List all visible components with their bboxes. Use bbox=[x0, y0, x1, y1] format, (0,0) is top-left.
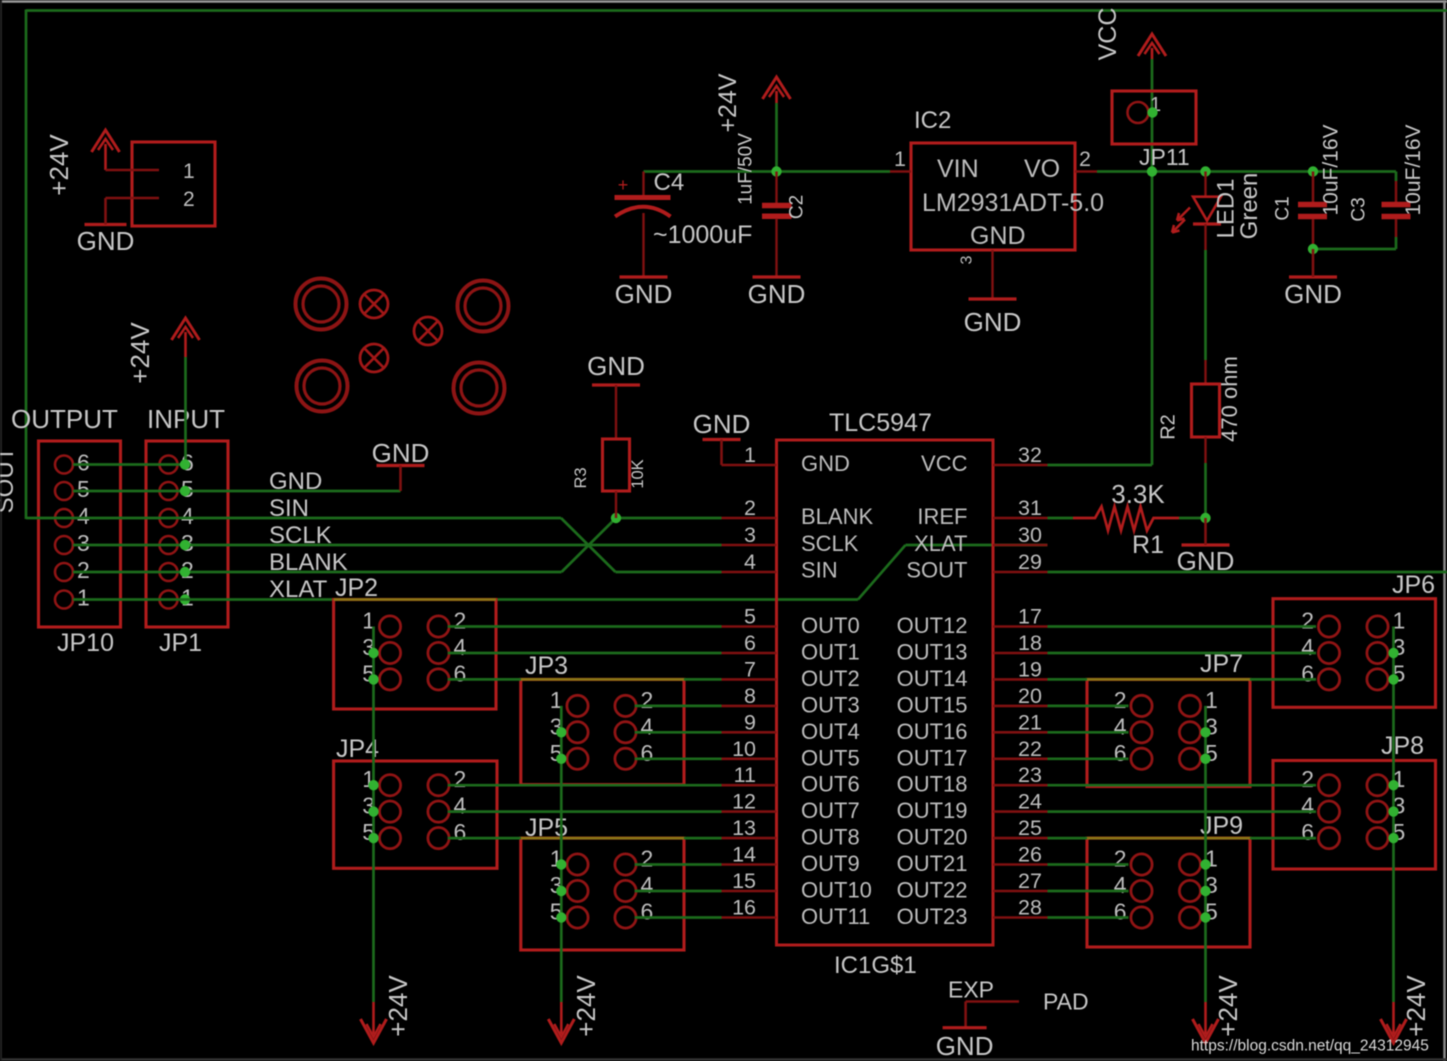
junction JP79 row4 bbox=[1200, 727, 1210, 737]
pad EXP/PAD bbox=[948, 977, 1089, 1028]
ground EXP bbox=[936, 1028, 994, 1061]
svg-text:JP11: JP11 bbox=[1139, 144, 1190, 170]
junction JP35 row10 bbox=[556, 886, 566, 896]
svg-text:23: 23 bbox=[1018, 763, 1042, 787]
svg-text:JP6: JP6 bbox=[1392, 571, 1435, 599]
svg-text:6: 6 bbox=[1301, 660, 1314, 686]
wire +24V JP2/JP4 bbox=[372, 627, 375, 1003]
junction C1 top bbox=[1308, 166, 1318, 176]
connector JP8 bbox=[1273, 732, 1436, 869]
junction JP24 row7 bbox=[368, 806, 378, 816]
svg-text:4: 4 bbox=[744, 550, 756, 574]
svg-text:OUT4: OUT4 bbox=[801, 719, 860, 744]
junction C1/C3 bottom bbox=[1308, 244, 1318, 254]
wire SIN/SOUT row bbox=[26, 518, 722, 572]
wire row pin6 bbox=[73, 463, 185, 466]
wire OUT3 bbox=[635, 705, 722, 708]
junction JP68 row2 bbox=[1388, 674, 1398, 684]
junction +24V/C2 bbox=[771, 166, 781, 176]
wire OUT6 bbox=[448, 784, 722, 787]
svg-text:OUT2: OUT2 bbox=[801, 666, 860, 691]
svg-text:JP3: JP3 bbox=[525, 652, 568, 680]
svg-text:OUT23: OUT23 bbox=[897, 904, 968, 929]
svg-text:8: 8 bbox=[744, 684, 756, 708]
junction JP79 row9 bbox=[1200, 859, 1210, 869]
svg-text:XLAT: XLAT bbox=[914, 531, 967, 556]
svg-text:GND: GND bbox=[964, 307, 1022, 337]
svg-text:SIN: SIN bbox=[269, 495, 309, 522]
svg-text:4: 4 bbox=[77, 503, 90, 529]
svg-text:9: 9 bbox=[744, 710, 756, 734]
svg-text:1: 1 bbox=[894, 147, 906, 171]
wire OUT20 bbox=[1048, 837, 1317, 840]
svg-text:470 ohm: 470 ohm bbox=[1217, 356, 1242, 442]
wire OUT17 bbox=[1048, 757, 1129, 760]
LED LED1 Green bbox=[1172, 172, 1263, 240]
junction JP79 row5 bbox=[1200, 754, 1210, 764]
svg-text:OUT16: OUT16 bbox=[897, 719, 968, 744]
svg-text:6: 6 bbox=[1301, 819, 1314, 845]
wire OUT16 bbox=[1048, 731, 1129, 734]
svg-text:18: 18 bbox=[1018, 631, 1042, 655]
svg-text:+24V: +24V bbox=[571, 975, 601, 1037]
svg-text:SIN: SIN bbox=[801, 558, 838, 583]
svg-text:4: 4 bbox=[641, 872, 654, 898]
svg-text:6: 6 bbox=[454, 819, 467, 845]
svg-text:4: 4 bbox=[1301, 793, 1314, 819]
svg-text:3.3K: 3.3K bbox=[1111, 479, 1165, 509]
connector X1 (2-pin) bbox=[106, 142, 216, 226]
supply +24V at C2 bbox=[714, 73, 791, 171]
ground C2 bbox=[748, 277, 806, 309]
svg-text:+24V: +24V bbox=[1213, 975, 1243, 1037]
wire OUT12 bbox=[1048, 625, 1317, 628]
svg-text:C2: C2 bbox=[787, 195, 808, 219]
svg-text:2: 2 bbox=[1114, 687, 1127, 713]
wire VCC vertical bbox=[1151, 59, 1154, 465]
svg-text:VIN: VIN bbox=[937, 155, 979, 183]
svg-text:24: 24 bbox=[1018, 790, 1042, 814]
ground C4 bbox=[615, 277, 673, 309]
junction JP35 row5 bbox=[556, 754, 566, 764]
svg-text:6: 6 bbox=[454, 660, 467, 686]
capacitor C1 bbox=[1273, 124, 1343, 249]
svg-text:1: 1 bbox=[77, 585, 90, 611]
svg-text:OUTPUT: OUTPUT bbox=[11, 404, 118, 434]
capacitor C2 bbox=[736, 133, 808, 277]
svg-text:C3: C3 bbox=[1349, 197, 1370, 221]
svg-text:4: 4 bbox=[454, 793, 467, 819]
svg-text:OUT6: OUT6 bbox=[801, 772, 860, 797]
wire BLANK bbox=[73, 518, 722, 572]
junction JP35 row4 bbox=[556, 727, 566, 737]
connector JP2 bbox=[334, 574, 496, 709]
svg-text:5: 5 bbox=[77, 476, 90, 502]
svg-text:GND: GND bbox=[1284, 279, 1342, 309]
svg-text:30: 30 bbox=[1018, 523, 1042, 547]
svg-text:OUT12: OUT12 bbox=[897, 613, 968, 638]
junction JP1 pin6 bbox=[180, 459, 190, 469]
svg-text:4: 4 bbox=[454, 634, 467, 660]
svg-text:32: 32 bbox=[1018, 443, 1042, 467]
svg-text:10K: 10K bbox=[629, 459, 647, 488]
ground R1 bbox=[1177, 518, 1235, 576]
supply +24V arrow B bbox=[548, 975, 601, 1043]
wire VCC pin32 bbox=[1048, 464, 1153, 467]
svg-text:LM2931ADT-5.0: LM2931ADT-5.0 bbox=[922, 189, 1104, 217]
wire LED1 to R2 bbox=[1204, 224, 1206, 360]
ground C1/C3 bbox=[1284, 249, 1342, 309]
resistor R3 10K bbox=[572, 385, 647, 518]
ground TLC5947 pin1 bbox=[693, 409, 751, 465]
svg-text:OUT19: OUT19 bbox=[897, 798, 968, 823]
junction JP79 row11 bbox=[1200, 912, 1210, 922]
connector JP1 INPUT bbox=[146, 404, 228, 657]
svg-text:13: 13 bbox=[732, 816, 756, 840]
wire VCC net VO bbox=[1097, 170, 1396, 173]
wire SOUT loop left bbox=[25, 10, 28, 520]
junction JP1 pin3 bbox=[180, 540, 190, 550]
supply VCC bbox=[1094, 8, 1166, 61]
svg-text:+: + bbox=[618, 175, 629, 195]
svg-text:15: 15 bbox=[732, 869, 756, 893]
capacitor C4 bbox=[615, 169, 753, 277]
svg-text:10uF/16V: 10uF/16V bbox=[1402, 124, 1425, 215]
svg-text:14: 14 bbox=[732, 843, 756, 867]
svg-text:1uF/50V: 1uF/50V bbox=[736, 133, 757, 205]
svg-text:4: 4 bbox=[181, 503, 194, 529]
mounting hole H2 bbox=[458, 281, 509, 332]
svg-text:6: 6 bbox=[744, 631, 756, 655]
junction LED branch bbox=[1200, 166, 1210, 176]
svg-text:GND: GND bbox=[372, 438, 430, 468]
svg-text:10: 10 bbox=[732, 737, 756, 761]
net label SCLK bbox=[269, 522, 332, 549]
supply +24V above JP1 bbox=[125, 318, 200, 465]
IC U1 TLC5947 bbox=[722, 409, 1048, 979]
svg-text:2: 2 bbox=[1114, 846, 1127, 872]
svg-text:+24V: +24V bbox=[44, 134, 74, 196]
svg-text:GND: GND bbox=[77, 226, 135, 256]
wire SOUT loop top bbox=[26, 9, 1447, 12]
svg-text:OUT22: OUT22 bbox=[897, 878, 968, 903]
svg-text:2: 2 bbox=[1079, 147, 1091, 171]
svg-text:GND: GND bbox=[587, 351, 645, 381]
svg-text:6: 6 bbox=[641, 899, 654, 925]
svg-text:2: 2 bbox=[1301, 608, 1314, 634]
junction JP24 row6 bbox=[368, 780, 378, 790]
svg-text:SOUT: SOUT bbox=[906, 558, 967, 583]
fiducial hole F2 bbox=[414, 317, 442, 345]
junction R1/R2 bbox=[1200, 513, 1210, 523]
svg-text:GND: GND bbox=[936, 1031, 994, 1061]
wire OUT14 bbox=[1048, 678, 1317, 681]
svg-text:OUT10: OUT10 bbox=[801, 878, 872, 903]
wire OUT13 bbox=[1048, 652, 1317, 655]
svg-text:Green: Green bbox=[1236, 173, 1263, 240]
wire OUT22 bbox=[1048, 890, 1129, 893]
supply +24V arrow A bbox=[361, 975, 414, 1043]
svg-text:2: 2 bbox=[183, 188, 195, 211]
ground IC2 bbox=[964, 299, 1022, 337]
svg-text:4: 4 bbox=[641, 713, 654, 739]
svg-text:OUT20: OUT20 bbox=[897, 825, 968, 850]
svg-text:1: 1 bbox=[744, 443, 756, 467]
ground R3 bbox=[587, 351, 645, 385]
svg-text:R1: R1 bbox=[1132, 531, 1164, 559]
wire XLAT bbox=[73, 545, 1048, 600]
svg-text:16: 16 bbox=[732, 896, 756, 920]
junction JP79 row10 bbox=[1200, 886, 1210, 896]
connector JP10 OUTPUT bbox=[11, 404, 121, 657]
junction JP1 pin5 bbox=[180, 486, 190, 496]
junction JP68 row7 bbox=[1388, 806, 1398, 816]
svg-text:25: 25 bbox=[1018, 816, 1042, 840]
wire OUT10 bbox=[635, 890, 722, 893]
connector JP3 bbox=[521, 652, 684, 785]
junction JP24 row1 bbox=[368, 648, 378, 658]
mounting hole H1 bbox=[296, 279, 347, 330]
svg-text:OUT17: OUT17 bbox=[897, 745, 968, 770]
svg-text:20: 20 bbox=[1018, 684, 1042, 708]
ground X1 bbox=[77, 198, 135, 256]
svg-text:VCC: VCC bbox=[1094, 8, 1122, 61]
svg-text:TLC5947: TLC5947 bbox=[829, 409, 932, 437]
svg-text:C4: C4 bbox=[654, 169, 685, 196]
svg-text:OUT3: OUT3 bbox=[801, 692, 860, 717]
connector JP4 bbox=[334, 735, 497, 868]
svg-text:VO: VO bbox=[1024, 155, 1060, 183]
wire OUT11 bbox=[635, 916, 722, 919]
supply +24V arrow C bbox=[1193, 975, 1244, 1043]
wire OUT5 bbox=[635, 757, 722, 760]
svg-text:JP2: JP2 bbox=[335, 574, 378, 602]
svg-text:26: 26 bbox=[1018, 843, 1042, 867]
svg-text:2: 2 bbox=[454, 608, 467, 634]
junction JP1 pin1 bbox=[180, 594, 190, 604]
svg-text:+24V: +24V bbox=[714, 73, 742, 132]
connector JP11 bbox=[1112, 91, 1196, 170]
wire C3 top bbox=[1395, 172, 1398, 203]
junction JP24 row2 bbox=[368, 674, 378, 684]
svg-text:IC1G$1: IC1G$1 bbox=[834, 952, 917, 979]
wire OUT7 bbox=[448, 810, 722, 813]
svg-text:17: 17 bbox=[1018, 605, 1042, 629]
svg-text:GND: GND bbox=[801, 451, 850, 476]
wire IREF bbox=[1048, 517, 1074, 520]
svg-text:OUT18: OUT18 bbox=[897, 772, 968, 797]
mounting hole H4 bbox=[454, 363, 505, 414]
svg-text:2: 2 bbox=[454, 766, 467, 792]
svg-text:2: 2 bbox=[744, 496, 756, 520]
wire OUT21 bbox=[1048, 863, 1129, 866]
net label BLANK bbox=[269, 549, 348, 576]
svg-text:+24V: +24V bbox=[125, 322, 155, 384]
svg-text:JP8: JP8 bbox=[1381, 732, 1424, 760]
watermark bbox=[1191, 1038, 1429, 1055]
svg-text:VCC: VCC bbox=[921, 451, 968, 476]
wire R2 to R1 junction bbox=[1204, 463, 1207, 518]
junction VCC/VO bbox=[1147, 166, 1157, 176]
svg-text:28: 28 bbox=[1018, 896, 1042, 920]
svg-text:2: 2 bbox=[641, 846, 654, 872]
svg-text:OUT15: OUT15 bbox=[897, 692, 968, 717]
wire R1 to junction bbox=[1179, 517, 1206, 520]
svg-text:IC2: IC2 bbox=[914, 107, 951, 134]
svg-text:3: 3 bbox=[744, 523, 756, 547]
svg-text:12: 12 bbox=[732, 790, 756, 814]
svg-text:IREF: IREF bbox=[917, 504, 967, 529]
wire +24V C4 to IC2 bbox=[644, 170, 891, 173]
svg-text:https://blog.csdn.net/qq_24312: https://blog.csdn.net/qq_24312945 bbox=[1191, 1038, 1429, 1055]
junction JP35 row9 bbox=[556, 859, 566, 869]
svg-text:1: 1 bbox=[1205, 687, 1218, 713]
supply +24V top-left bbox=[44, 130, 120, 196]
svg-text:OUT9: OUT9 bbox=[801, 851, 860, 876]
resistor R2 470 ohm bbox=[1158, 356, 1243, 463]
capacitor C3 bbox=[1349, 124, 1426, 237]
svg-text:~1000uF: ~1000uF bbox=[653, 221, 752, 249]
junction R3/BLANK bbox=[611, 513, 621, 523]
svg-text:GND: GND bbox=[970, 222, 1026, 250]
wire OUT4 bbox=[635, 731, 722, 734]
svg-text:OUT21: OUT21 bbox=[897, 851, 968, 876]
svg-text:21: 21 bbox=[1018, 710, 1042, 734]
svg-text:2: 2 bbox=[641, 687, 654, 713]
svg-text:SOUT: SOUT bbox=[0, 446, 19, 513]
resistor R1 3.3K bbox=[1073, 479, 1179, 559]
junction JP68 row6 bbox=[1388, 780, 1398, 790]
wire +24V JP6/JP8 bbox=[1392, 627, 1395, 1003]
junction JP35 row11 bbox=[556, 912, 566, 922]
svg-text:OUT1: OUT1 bbox=[801, 640, 860, 665]
svg-text:19: 19 bbox=[1018, 657, 1042, 681]
svg-text:2: 2 bbox=[1301, 766, 1314, 792]
svg-text:22: 22 bbox=[1018, 737, 1042, 761]
svg-text:6: 6 bbox=[1114, 740, 1127, 766]
svg-text:BLANK: BLANK bbox=[269, 549, 348, 576]
net label SIN bbox=[269, 495, 309, 522]
svg-text:6: 6 bbox=[641, 740, 654, 766]
svg-text:C1: C1 bbox=[1273, 196, 1294, 220]
svg-text:R3: R3 bbox=[572, 467, 590, 488]
svg-text:GND: GND bbox=[269, 468, 322, 495]
wire OUT1 bbox=[448, 652, 722, 655]
svg-text:GND: GND bbox=[693, 409, 751, 439]
wire SCLK bbox=[73, 544, 722, 547]
ground net GND (JP1) bbox=[372, 438, 430, 491]
svg-text:3: 3 bbox=[77, 530, 90, 556]
svg-text:OUT11: OUT11 bbox=[801, 904, 870, 929]
wire +24V JP3/JP5 bbox=[560, 706, 563, 1002]
svg-text:GND: GND bbox=[748, 279, 806, 309]
svg-text:PAD: PAD bbox=[1043, 989, 1089, 1015]
svg-text:BLANK: BLANK bbox=[801, 504, 873, 529]
svg-text:OUT14: OUT14 bbox=[897, 666, 968, 691]
svg-text:7: 7 bbox=[744, 657, 756, 681]
svg-text:2: 2 bbox=[77, 557, 90, 583]
junction JP24 row8 bbox=[368, 833, 378, 843]
junction JP68 row1 bbox=[1388, 648, 1398, 658]
svg-text:4: 4 bbox=[1301, 634, 1314, 660]
junction JP1 pin2 bbox=[180, 567, 190, 577]
svg-text:5: 5 bbox=[744, 605, 756, 629]
svg-text:1: 1 bbox=[183, 160, 195, 183]
net label SOUT bbox=[0, 446, 19, 513]
svg-text:OUT13: OUT13 bbox=[897, 640, 968, 665]
svg-text:GND: GND bbox=[615, 279, 673, 309]
junction JP68 row8 bbox=[1388, 833, 1398, 843]
svg-text:29: 29 bbox=[1018, 550, 1042, 574]
wire SOUT pin29 bbox=[1048, 571, 1447, 574]
connector JP7 bbox=[1087, 650, 1250, 787]
svg-text:R2: R2 bbox=[1158, 414, 1180, 440]
wire OUT2 bbox=[448, 678, 722, 681]
svg-text:JP10: JP10 bbox=[57, 629, 114, 657]
fiducial hole F3 bbox=[360, 344, 388, 372]
mounting hole H3 bbox=[297, 361, 348, 412]
wire C3 bottom to C1 bbox=[1313, 237, 1396, 249]
svg-text:OUT0: OUT0 bbox=[801, 613, 860, 638]
net label GND bbox=[269, 468, 322, 495]
wire +24V JP7/JP9 bbox=[1204, 706, 1207, 1002]
svg-text:11: 11 bbox=[734, 763, 756, 787]
wire OUT18 bbox=[1048, 784, 1317, 787]
fiducial hole F1 bbox=[360, 290, 388, 318]
wire OUT9 bbox=[635, 863, 722, 866]
svg-text:+24V: +24V bbox=[1401, 975, 1431, 1037]
svg-text:4: 4 bbox=[1114, 872, 1127, 898]
svg-text:OUT5: OUT5 bbox=[801, 745, 860, 770]
svg-text:6: 6 bbox=[77, 450, 90, 476]
svg-text:SCLK: SCLK bbox=[269, 522, 332, 549]
op-amp/regulator IC2 LM2931ADT-5.0 bbox=[890, 107, 1104, 299]
svg-text:OUT8: OUT8 bbox=[801, 825, 860, 850]
supply +24V arrow D bbox=[1381, 975, 1432, 1043]
svg-text:SCLK: SCLK bbox=[801, 531, 859, 556]
svg-text:27: 27 bbox=[1018, 869, 1042, 893]
connector JP9 bbox=[1087, 812, 1250, 947]
wire OUT8 bbox=[448, 837, 722, 840]
svg-text:OUT7: OUT7 bbox=[801, 798, 860, 823]
svg-text:JP1: JP1 bbox=[159, 629, 202, 657]
svg-text:31: 31 bbox=[1018, 496, 1042, 520]
wire OUT19 bbox=[1048, 810, 1317, 813]
connector JP6 bbox=[1273, 571, 1436, 707]
svg-text:3: 3 bbox=[959, 255, 976, 264]
svg-text:4: 4 bbox=[1114, 713, 1127, 739]
wire OUT15 bbox=[1048, 705, 1129, 708]
junction JP11 pin1 bbox=[1147, 107, 1157, 117]
wire GND row bbox=[73, 490, 401, 493]
svg-text:+24V: +24V bbox=[383, 975, 413, 1037]
wire OUT0 bbox=[448, 625, 722, 628]
svg-text:6: 6 bbox=[1114, 899, 1127, 925]
svg-text:10uF/16V: 10uF/16V bbox=[1320, 124, 1343, 215]
net label XLAT bbox=[269, 576, 328, 603]
svg-text:EXP: EXP bbox=[948, 977, 994, 1003]
wire OUT23 bbox=[1048, 916, 1129, 919]
connector JP5 bbox=[521, 814, 684, 950]
